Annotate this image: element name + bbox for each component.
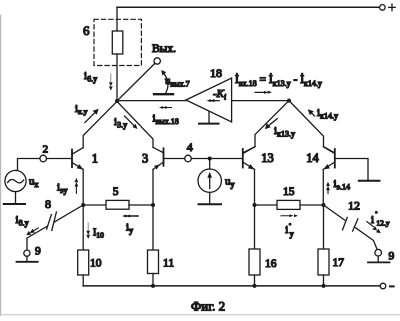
wire node B to resistor 10 — [82, 205, 84, 250]
rail junction dot R17 — [322, 284, 326, 288]
scan frame left edge — [0, 15, 2, 316]
wire capacitor 12 to node 9 right — [356, 228, 378, 250]
svg-text:13: 13 — [261, 151, 274, 165]
svg-text:iк13.у: iк13.у — [274, 125, 295, 139]
scan frame bottom edge — [0, 314, 400, 316]
current arrow i.к14.y — [308, 109, 315, 116]
svg-text:14: 14 — [306, 151, 319, 165]
svg-text:12: 12 — [348, 199, 360, 213]
svg-text:i: i — [285, 224, 288, 236]
terminal + circle — [380, 5, 386, 11]
ground of u.y — [209, 192, 211, 203]
wire capacitor 8 to node 9 — [27, 226, 48, 250]
wire Q3 collector to node A — [117, 101, 153, 147]
ground of amplifier 18 — [208, 112, 210, 124]
current arrow i.вых.18 — [159, 106, 172, 109]
node F junction dot — [287, 99, 291, 103]
resistor R16 — [249, 249, 260, 275]
capacitor C12 plates — [343, 218, 348, 230]
svg-text:8: 8 — [45, 197, 51, 211]
svg-text:11: 11 — [163, 257, 174, 269]
input source u.x — [5, 170, 26, 191]
svg-text:4: 4 — [187, 140, 193, 154]
wire node 4 to transistor 13 base — [191, 158, 242, 160]
transistor Q1 — [72, 148, 83, 170]
resistor R10 — [78, 250, 89, 275]
wire node D to resistor 15 — [255, 204, 278, 206]
ground below right node 9 — [377, 256, 379, 262]
wire Q14 emitter to node E — [322, 169, 324, 205]
node D junction dot — [253, 203, 257, 207]
ground of u.x — [15, 192, 17, 204]
current arrow I.10 — [86, 223, 90, 239]
wire resistor 17 to negative rail — [323, 275, 325, 286]
transistor Q13 — [243, 147, 255, 170]
svg-text:iвых.18: iвых.18 — [153, 113, 179, 127]
svg-text:15: 15 — [283, 186, 295, 198]
wire resistor 15 to node E — [300, 204, 324, 206]
svg-text:9: 9 — [35, 246, 41, 258]
resistor R6 — [112, 31, 123, 54]
node B junction dot — [81, 203, 85, 207]
label - — [390, 285, 394, 287]
sine symbol — [8, 179, 24, 182]
rail junction dot R11 — [151, 284, 155, 288]
wire rail to resistor 6 — [116, 7, 118, 31]
svg-text:5: 5 — [113, 186, 119, 198]
current arrow i6.y — [109, 74, 113, 91]
current arrow under equation — [255, 91, 273, 94]
transistor Q14 — [323, 147, 335, 170]
voltage arrow u.вых.7 base bar — [154, 93, 173, 95]
svg-text:iк.у: iк.у — [75, 103, 88, 116]
node 9 circle right — [375, 249, 382, 256]
capacitor C12 wire from node E — [324, 205, 345, 220]
wire resistor 11 to negative rail — [152, 274, 154, 287]
wire resistor 16 to negative rail — [254, 275, 256, 286]
node 9 circle left — [24, 250, 30, 256]
wire source to node 2 — [16, 159, 40, 171]
svg-text:16: 16 — [265, 258, 277, 270]
label + — [389, 4, 396, 11]
svg-text:2: 2 — [43, 143, 49, 155]
svg-text:17: 17 — [333, 257, 345, 269]
svg-text:I10: I10 — [93, 227, 104, 239]
arrow inside amplifier — [207, 99, 220, 102]
rail junction dot R16 — [253, 284, 257, 288]
wire node F to transistor 14 collector — [289, 101, 334, 153]
svg-text:Вых.: Вых. — [152, 43, 176, 55]
svg-text:i3.у: i3.у — [114, 116, 127, 130]
resistor R11 — [148, 250, 159, 274]
capacitor C8 plates — [52, 212, 57, 230]
arrow inside u.y — [207, 172, 212, 189]
wire amplifier 18 to node F — [232, 100, 289, 102]
wire node D to resistor 16 — [254, 205, 256, 249]
node C junction dot — [151, 203, 155, 207]
wire node A to output terminal — [117, 63, 155, 101]
current arrow i.8y — [26, 227, 39, 235]
wire node E to resistor 17 — [323, 205, 325, 249]
wire Q1 emitter to node B — [82, 170, 84, 206]
svg-text:18: 18 — [210, 66, 222, 80]
svg-text:iэу: iэу — [57, 182, 68, 196]
svg-text:uу: uу — [225, 176, 235, 190]
wire node G to source u.y — [209, 159, 211, 170]
current source u.y — [198, 169, 221, 192]
node 2 circle — [40, 155, 47, 162]
svg-text:uвых.7: uвых.7 — [165, 75, 190, 89]
transistor Q3 — [153, 147, 164, 169]
wire negative supply rail — [83, 285, 380, 287]
op-amp U18 inverting current amplifier triangle — [186, 78, 232, 122]
wire Q14 base to ground — [335, 159, 368, 180]
current arrow i.к.y — [85, 109, 99, 123]
node 4 circle — [185, 155, 192, 162]
wire node 2 to transistor 1 base — [47, 158, 72, 160]
svg-text:i: i — [371, 214, 374, 226]
dashed box around resistor 6 — [94, 19, 141, 65]
current arrow i.y — [122, 215, 139, 218]
node E junction dot — [322, 203, 326, 207]
wire positive supply rail — [117, 6, 380, 8]
wire resistor 10 to negative rail — [82, 275, 84, 286]
wire node C to resistor 11 — [152, 205, 154, 250]
svg-text:9: 9 — [389, 251, 395, 263]
current arrow i*.y — [281, 214, 299, 217]
ground below node 9 — [26, 256, 28, 261]
svg-text:i8.у: i8.у — [16, 214, 29, 228]
wire node B to resistor 5 — [83, 204, 106, 206]
svg-text:iу: iу — [126, 222, 133, 236]
output node circle Вых — [154, 58, 160, 64]
current arrow i.к13.y — [265, 119, 278, 130]
wire resistor 6 to node A — [116, 54, 118, 101]
wire Q13 emitter to node D — [254, 169, 256, 205]
resistor R17 — [318, 249, 329, 275]
current arrow i.эу — [75, 178, 79, 193]
voltage arrow u.вых.7 curved arrow — [163, 73, 168, 93]
svg-text:12.у: 12.у — [376, 219, 389, 228]
svg-text:6: 6 — [83, 23, 90, 38]
current arrow i.3.y on wire — [125, 116, 138, 129]
svg-text:3: 3 — [142, 151, 148, 165]
current arrow i*.12.y — [366, 221, 381, 233]
capacitor C8 wire from node B — [55, 205, 84, 222]
node G junction dot — [208, 157, 212, 161]
svg-text:у: у — [290, 229, 294, 238]
svg-text:i6.у: i6.у — [84, 70, 97, 84]
resistor R15 — [277, 200, 300, 209]
svg-text:iк14.у: iк14.у — [317, 107, 338, 121]
resistor R5 — [106, 200, 129, 209]
ground of Q14 base — [359, 180, 380, 182]
wire Q1 collector to node A — [83, 101, 117, 147]
svg-text:10: 10 — [90, 258, 102, 270]
wire node A to inverting amplifier 18 — [117, 100, 186, 102]
svg-text:1: 1 — [92, 151, 98, 165]
wire Q3 base to node 4 — [164, 158, 185, 160]
current arrow i.э14 — [326, 182, 330, 194]
svg-text:İвх.18 = İк13.у - İк14.у: İвх.18 = İк13.у - İк14.у — [235, 72, 322, 88]
wire node F to transistor 13 collector — [243, 101, 289, 153]
terminal - circle — [380, 283, 386, 289]
svg-text:iэ.14: iэ.14 — [334, 178, 351, 192]
wire resistor 5 to node C — [129, 204, 153, 206]
node A junction dot — [115, 99, 119, 103]
wire Q3 emitter to node C — [152, 169, 154, 205]
svg-text:uх: uх — [29, 176, 39, 190]
svg-text:Фиг. 2: Фиг. 2 — [191, 299, 225, 314]
